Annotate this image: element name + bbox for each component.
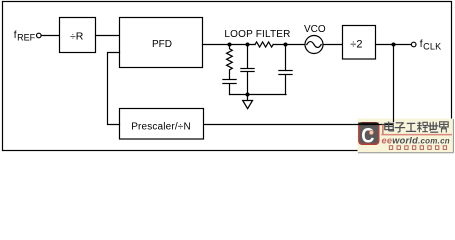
feedback wire prescaler to PFD (108, 53, 120, 125)
svg-text:fCLK: fCLK (420, 39, 442, 52)
branch C wire (285, 45, 287, 71)
ground junction (246, 93, 250, 97)
svg-text:VCO: VCO (304, 24, 326, 35)
branch A resistor R3 vertical (227, 45, 233, 80)
title char 界 (440, 122, 449, 133)
title char 电 (385, 122, 394, 131)
svg-text:Prescaler/÷N: Prescaler/÷N (131, 122, 191, 133)
title char 子 (395, 123, 406, 133)
wire resistor to VCO (273, 44, 305, 46)
logo panel gray border (358, 152, 453, 154)
svg-text:eeworld.com.cn: eeworld.com.cn (382, 135, 450, 145)
svg-text:÷2: ÷2 (350, 38, 362, 50)
title char 程 (417, 122, 428, 133)
divider 2 block (343, 26, 376, 60)
svg-text:C: C (361, 124, 374, 148)
logo panel background (358, 119, 455, 158)
wire div2 to output terminal (376, 44, 412, 46)
divider R block (60, 18, 96, 53)
series resistor R2 on rail (255, 42, 273, 47)
input terminal fREF (37, 33, 42, 38)
title red underline (381, 134, 452, 136)
wire PFD output to loop filter node A (203, 44, 256, 46)
wire over logo (vertical) (393, 119, 395, 123)
title char 工 (406, 123, 416, 131)
logo icon square (359, 123, 379, 144)
feedback wire horizontal to prescaler (204, 124, 394, 126)
title char 世 (428, 122, 439, 133)
capacitor C1 (223, 79, 236, 81)
slogan tiny chars (389, 146, 446, 150)
svg-text:PFD: PFD (152, 39, 172, 50)
eeworld watermark logo (358, 119, 455, 158)
ground symbol (243, 101, 253, 109)
capacitor C3 (279, 70, 292, 72)
svg-text:fREF: fREF (14, 30, 36, 43)
svg-text:÷R: ÷R (70, 31, 84, 43)
prescaler block (120, 109, 204, 140)
wire divR to PFD (96, 35, 120, 37)
logo icon orange dot (369, 131, 373, 135)
PFD block U1 (120, 18, 203, 68)
branch B wire (247, 45, 249, 69)
icon top dark band (358, 122, 378, 124)
wire over logo (horizontal) (358, 124, 394, 126)
filter bottom rail (230, 94, 287, 96)
node junction dot3 (284, 43, 288, 47)
output terminal fCLK (411, 42, 416, 47)
svg-text:LOOP FILTER: LOOP FILTER (224, 29, 290, 40)
wire terminal to divR (41, 35, 59, 37)
capacitor C2 (241, 68, 254, 70)
node A junction (228, 43, 232, 47)
wire VCO to div2 (323, 44, 342, 46)
border frame (3, 2, 452, 151)
VCO oscillator symbol (305, 36, 323, 54)
feedback wire vertical from node B (393, 45, 395, 125)
node junction dot2 (246, 43, 250, 47)
red tick before title (382, 124, 383, 134)
ground stub (247, 95, 249, 101)
junction dots (228, 43, 396, 97)
node B junction (feedback tap) (392, 43, 396, 47)
VCO sine wave (307, 42, 321, 48)
